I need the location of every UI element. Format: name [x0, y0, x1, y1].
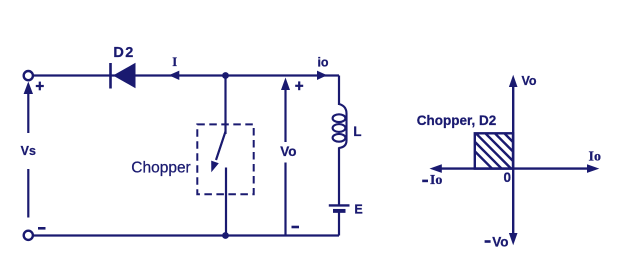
- switch blade with arrow: [211, 132, 225, 173]
- wire switch top lead: [224, 76, 226, 135]
- battery E: [329, 205, 350, 211]
- quadrant hatched square: [457, 133, 540, 169]
- wire right branch upper lead: [338, 76, 340, 106]
- svg-text:L: L: [353, 124, 361, 139]
- inductor L: [333, 104, 347, 148]
- svg-text:0: 0: [503, 170, 511, 185]
- svg-text:Vo: Vo: [522, 74, 537, 88]
- svg-text:E: E: [354, 203, 362, 217]
- terminal top-left: [24, 71, 33, 80]
- svg-text:Vs: Vs: [21, 144, 36, 158]
- svg-text:Chopper: Chopper: [131, 160, 190, 177]
- wire middle right lead: [338, 148, 340, 205]
- svg-text:Chopper, D2: Chopper, D2: [417, 113, 497, 128]
- wire battery bottom lead: [338, 212, 340, 236]
- terminal bottom-left: [24, 231, 33, 240]
- wire Vs arrow (up): [24, 82, 33, 134]
- label - (source negative): [38, 227, 46, 230]
- diode D2: [111, 63, 136, 89]
- node junction bottom: [222, 232, 229, 239]
- wire bottom bus: [33, 234, 339, 236]
- svg-text:io: io: [317, 56, 328, 70]
- wire top bus: [33, 74, 339, 76]
- label -Vo axis: [485, 235, 509, 250]
- wire Vo arrow branch: [281, 78, 290, 236]
- current arrow I (left): [169, 71, 180, 80]
- wire switch bottom lead: [225, 168, 227, 236]
- node junction top: [222, 72, 229, 79]
- axis vertical Vo: [509, 75, 518, 246]
- svg-text:D2: D2: [113, 45, 134, 61]
- chopper dashed box: [197, 124, 253, 194]
- svg-text:Vo: Vo: [492, 235, 508, 250]
- label - (Vo): [292, 226, 300, 229]
- svg-text:Vo: Vo: [280, 144, 296, 159]
- axis horizontal Io: [430, 164, 600, 173]
- svg-text:Io: Io: [430, 173, 442, 188]
- arrow io (right): [317, 71, 327, 80]
- label -Io axis: [422, 173, 442, 188]
- wire source lower lead: [27, 169, 29, 218]
- label + (Vo): [295, 81, 303, 90]
- svg-text:Io: Io: [589, 150, 601, 165]
- label + (source positive): [36, 82, 44, 91]
- svg-text:I: I: [172, 55, 177, 69]
